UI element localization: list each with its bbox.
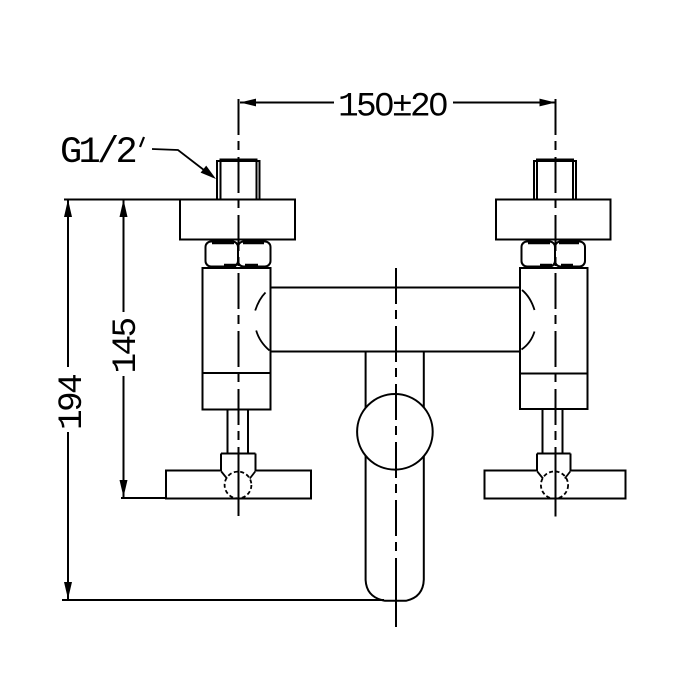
spout right edge (423, 352, 425, 580)
spout left edge (365, 352, 367, 581)
dimension 194 down arrow (64, 582, 72, 599)
dimension 194 bottom extension line (62, 599, 384, 601)
dimension 145 vertical line upper (123, 200, 125, 313)
spout ball circle (357, 394, 433, 470)
left nut bottom chamfer marks (224, 264, 258, 268)
dimension 194 vertical line upper (67, 200, 69, 368)
dimension 150±20 right arrow (540, 99, 556, 107)
right nut top chamfer marks (528, 241, 579, 245)
left handle hub right side (255, 454, 257, 472)
dimension 194 up arrow (64, 200, 72, 218)
leader line G1/2 (152, 149, 213, 177)
left valve body divider (203, 372, 271, 374)
spout bottom cap (366, 580, 424, 601)
right inlet nipple inner (537, 160, 573, 200)
left valve stem (228, 410, 249, 454)
dimension 150±20 line right segment (453, 102, 555, 104)
left inlet nipple inner (221, 160, 257, 200)
right valve body divider (520, 373, 588, 375)
right handle bar (485, 471, 626, 499)
left handle hub top (221, 453, 256, 455)
left handle bar (166, 471, 311, 499)
dimension 145 vertical line lower (123, 376, 125, 497)
leader arrow G1/2 (201, 166, 216, 179)
dimension 194 vertical line lower (67, 432, 69, 599)
dimension 150±20 left arrow (240, 99, 256, 107)
right flange (496, 200, 611, 240)
left handle hub left side (220, 454, 222, 472)
left flange (180, 200, 295, 240)
dimension 145 down arrow (120, 480, 128, 497)
right valve body (520, 268, 588, 409)
left inlet nipple outer (217, 161, 260, 200)
left centerline dashed (238, 99, 240, 453)
right centerline dashed (555, 99, 557, 453)
right nut half B (555, 242, 585, 267)
left nut top chamfer marks (212, 241, 264, 245)
inch tick mark (140, 137, 144, 147)
svg-text:194: 194 (53, 375, 92, 430)
body bar left end arcs (255, 293, 269, 351)
svg-text:145: 145 (107, 319, 146, 374)
body bar top line (271, 287, 521, 289)
right inlet nipple outer (534, 161, 576, 200)
right nut half A (522, 242, 556, 267)
right valve stem (543, 409, 563, 454)
right nut bottom chamfer marks (540, 264, 573, 268)
left hub chamfer left (221, 472, 227, 479)
left hub chamfer right (250, 472, 255, 479)
svg-text:150±20: 150±20 (338, 88, 447, 127)
right centerline solid lower (555, 453, 557, 517)
right handle hub right side (570, 454, 572, 472)
spout centerline (395, 268, 397, 570)
right hub chamfer left (537, 472, 543, 479)
body bar right end arcs (522, 290, 535, 350)
left handle circle (225, 472, 252, 499)
dimension 150±20 line left segment (240, 102, 334, 104)
spout centerline lower solid (395, 570, 397, 627)
left nut half A (206, 242, 239, 267)
left valve body (203, 268, 271, 410)
svg-text:G1/2: G1/2 (60, 132, 136, 174)
dimension 145 bottom extension line (121, 497, 166, 499)
left centerline solid lower (238, 453, 240, 516)
right handle circle (541, 471, 568, 498)
right handle hub left side (536, 454, 538, 472)
zero dot covers (380, 100, 387, 107)
body bar bottom line (271, 351, 521, 353)
dimension 194 top extension line (64, 199, 181, 201)
left nut half B (238, 242, 271, 267)
right handle hub top (537, 453, 571, 455)
right hub chamfer right (565, 472, 570, 479)
dimension 145 up arrow (120, 200, 128, 218)
